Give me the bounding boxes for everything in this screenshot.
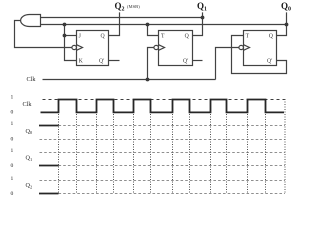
dashed level-0 line Q2 [59,193,286,195]
dotted gridline t9 [210,99,212,193]
dashed level-0 line Q0 [40,139,286,141]
dotted gridline t2 [76,99,78,193]
dashed level-1 line Q2 [40,180,286,182]
timing diagram dark dotted gridlines [59,99,286,193]
wire J stub [65,35,77,37]
flip-flop U2 box (T) [159,31,193,66]
wire J/K dropper [65,25,77,61]
dashed level-0 line Q1 [59,165,286,167]
svg-text:0: 0 [11,163,14,169]
waveform Clk [41,100,285,113]
dashed level-1 line Q1 [40,152,286,154]
wire Clk line [43,79,216,81]
waveform Q2 initial low [39,193,59,195]
dotted gridline t6 [150,99,152,193]
wire T tap U2 [148,25,159,36]
junction dot T tap [146,23,150,27]
waveform Q1 initial low [39,165,59,167]
wire AND output to JK clock [15,21,73,48]
dotted gridline t8 [189,99,191,193]
clock triangle U3 [244,45,250,51]
dashed level-1 line Q0 [59,125,286,127]
svg-text:1: 1 [11,176,14,182]
junction dot J [63,34,67,38]
wire Q2 output [109,12,120,35]
dashed level-1 line Clk (dark) [43,99,286,101]
junction dot Clk/U2 [146,78,150,82]
svg-text:1: 1 [11,148,14,154]
svg-text:(MSB): (MSB) [127,4,140,9]
wire U3 clock from Clk [216,48,240,80]
dotted gridline t11 [247,99,249,193]
clock triangle U1 [77,45,83,51]
dotted gridline t5 [133,99,135,193]
clock triangle U2 [159,45,165,51]
svg-text:1: 1 [11,121,14,127]
svg-text:0: 0 [11,191,14,197]
svg-text:0: 0 [11,109,14,115]
flip-flop U3 box (T) [244,31,277,66]
svg-text:T: T [246,34,250,40]
wire Q0 output [277,12,287,35]
dotted gridline t7 [172,99,174,193]
flip-flop U1 box (JK) [77,31,109,66]
svg-text:Q′: Q′ [99,59,104,65]
clock bubble U3 [239,45,244,49]
dotted gridline t4 [113,99,115,193]
svg-text:Clk: Clk [23,101,33,108]
clock bubble U1 [72,45,77,49]
wire U2 Q' stub [193,60,203,62]
AND gate G1 [21,15,41,27]
dotted gridline t1 [58,99,60,193]
wire Q1 output [193,12,203,35]
junction dot Q0/line2 [285,23,289,27]
svg-text:T: T [161,34,165,40]
timing diagram light dashed level lines [40,126,286,194]
svg-text:Q′: Q′ [267,59,272,65]
wire U3 T feedback from Q' [232,36,287,74]
svg-text:0: 0 [11,136,14,142]
svg-text:Clk: Clk [27,76,37,83]
clock bubble U2 [154,45,159,49]
wire U1 Q' stub [109,60,120,62]
wire net Q0 line2 [41,24,287,26]
dotted gridline t12 [265,99,267,193]
junction dot Q1/line1 [201,16,205,20]
dotted gridline t10 [226,99,228,193]
dotted gridline t3 [96,99,98,193]
wire U2 clock from Clk [148,48,155,80]
svg-text:1: 1 [11,95,14,101]
junction dot line2/JK dropper [63,23,67,27]
waveform Q0 initial high [39,125,59,127]
dotted gridline t13 [284,99,286,193]
svg-text:Q′: Q′ [183,59,188,65]
wire net Q1 line1 [41,17,203,19]
